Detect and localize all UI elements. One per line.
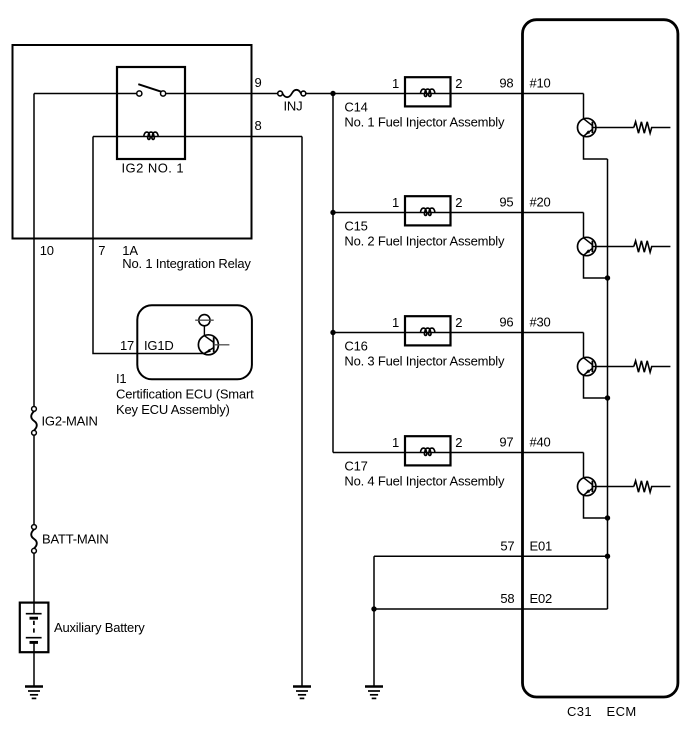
wire E01 <box>374 555 608 557</box>
ground <box>25 687 43 699</box>
wire base to resistor row 1 <box>592 127 633 129</box>
wire pin 10 riser top segment <box>33 94 35 407</box>
svg-text:E02: E02 <box>530 591 553 606</box>
injector C14 coil <box>421 89 435 96</box>
transistor row 2 in ECM <box>578 237 596 255</box>
connector IG2-MAIN <box>31 407 37 436</box>
wire E01/E02 drop to ground <box>373 556 375 686</box>
wire injector feed bus <box>306 94 333 453</box>
node emitter bus join row 2 <box>605 275 610 280</box>
node junction at INJ output <box>330 91 335 96</box>
wire emitter to common bus row 1 <box>584 136 608 159</box>
wire common emitter bus <box>607 159 609 609</box>
wire relay contact to INJ fuse (pin 9) <box>166 93 278 95</box>
svg-text:1: 1 <box>392 76 399 91</box>
node emitter bus join row 4 <box>605 515 610 520</box>
wire to battery <box>33 554 35 614</box>
svg-text:#20: #20 <box>530 195 551 210</box>
svg-text:10: 10 <box>40 243 54 258</box>
svg-text:No. 2 Fuel Injector Assembly: No. 2 Fuel Injector Assembly <box>344 234 505 249</box>
wire switch line from pin 10 riser to relay contact <box>34 93 137 95</box>
relay coil <box>144 132 158 139</box>
svg-text:C14: C14 <box>344 100 367 115</box>
relay switch contact <box>137 84 166 96</box>
node E02 left junction <box>371 606 376 611</box>
wire base to resistor row 3 <box>592 366 633 368</box>
resistor row 3 <box>634 361 671 372</box>
battery cell plates <box>26 614 42 643</box>
relay IG2 NO. 1 box <box>117 67 185 159</box>
resistor row 4 <box>634 481 671 492</box>
svg-text:Key ECU Assembly): Key ECU Assembly) <box>116 402 230 417</box>
wire emitter to common bus row 3 <box>584 375 608 398</box>
svg-text:BATT-MAIN: BATT-MAIN <box>42 532 109 547</box>
Auxiliary Battery box <box>20 603 49 653</box>
svg-text:C16: C16 <box>344 339 367 354</box>
wire injector row 3 <box>333 332 584 334</box>
node emitter bus join row 3 <box>605 395 610 400</box>
svg-text:1: 1 <box>392 315 399 330</box>
transistor row 3 in ECM <box>578 357 596 375</box>
svg-text:#10: #10 <box>530 76 551 91</box>
Certification ECU I1 box <box>137 305 252 379</box>
svg-text:58: 58 <box>500 591 514 606</box>
ground <box>293 687 311 699</box>
svg-text:Certification ECU (Smart: Certification ECU (Smart <box>116 386 254 401</box>
svg-text:95: 95 <box>499 195 513 210</box>
svg-text:#30: #30 <box>530 315 551 330</box>
injector C15 box <box>405 196 451 225</box>
svg-text:96: 96 <box>499 315 513 330</box>
svg-text:17: 17 <box>120 338 134 353</box>
svg-text:No. 3 Fuel Injector Assembly: No. 3 Fuel Injector Assembly <box>344 354 505 369</box>
wire emitter to common bus row 4 <box>584 495 608 518</box>
wire collector drop row 2 <box>583 213 585 238</box>
svg-text:Auxiliary Battery: Auxiliary Battery <box>54 620 145 635</box>
svg-text:C15: C15 <box>344 219 367 234</box>
wire base to resistor row 2 <box>592 246 633 248</box>
resistor row 2 <box>634 241 671 252</box>
ground <box>365 687 383 699</box>
svg-text:INJ: INJ <box>284 98 303 113</box>
svg-text:98: 98 <box>499 76 513 91</box>
wire E02 <box>374 608 608 610</box>
svg-text:No. 1 Integration Relay: No. 1 Integration Relay <box>122 256 251 271</box>
wire injector row 2 <box>333 212 584 214</box>
injector C17 box <box>405 436 451 465</box>
svg-text:IG2-MAIN: IG2-MAIN <box>42 413 98 428</box>
svg-text:2: 2 <box>455 315 462 330</box>
wire collector drop row 1 <box>583 94 585 119</box>
wire emitter to common bus row 2 <box>584 255 608 278</box>
node E01 junction <box>605 554 610 559</box>
wire pin 7 drop to IG1D <box>93 137 204 354</box>
svg-text:ECM: ECM <box>607 704 637 719</box>
svg-text:1: 1 <box>392 435 399 450</box>
transistor row 1 in ECM <box>578 118 596 136</box>
wire terminal to transistor <box>203 326 205 336</box>
svg-text:#40: #40 <box>530 435 551 450</box>
connector BATT-MAIN <box>31 525 37 554</box>
svg-text:IG1D: IG1D <box>144 338 174 353</box>
svg-text:2: 2 <box>455 76 462 91</box>
transistor in Certification ECU <box>198 335 229 355</box>
wire collector drop row 4 <box>583 453 585 478</box>
node at C15 branch <box>330 210 335 215</box>
svg-text:C17: C17 <box>344 459 367 474</box>
wire between connectors <box>33 436 35 524</box>
svg-text:57: 57 <box>500 538 514 553</box>
svg-text:No. 1 Fuel Injector Assembly: No. 1 Fuel Injector Assembly <box>344 115 505 130</box>
svg-text:8: 8 <box>255 118 262 133</box>
wire relay coil line pin 7 to pin 8 riser <box>93 136 302 138</box>
No. 1 Integration Relay outer box <box>13 45 252 239</box>
transistor row 4 in ECM <box>578 477 596 495</box>
svg-text:7: 7 <box>98 243 105 258</box>
injector C15 coil <box>421 208 435 215</box>
wire injector row 1 <box>333 93 584 95</box>
svg-text:E01: E01 <box>530 538 553 553</box>
wire base to resistor row 4 <box>592 486 633 488</box>
svg-text:C31: C31 <box>567 704 592 719</box>
injector C17 coil <box>421 448 435 455</box>
wire battery to ground <box>33 642 35 686</box>
wire injector row 4 <box>333 452 584 454</box>
wire collector drop row 3 <box>583 333 585 358</box>
svg-text:2: 2 <box>455 195 462 210</box>
svg-text:I1: I1 <box>116 371 126 386</box>
terminal circle above transistor <box>195 315 214 326</box>
svg-text:2: 2 <box>455 435 462 450</box>
wire pin 8 drop to ground <box>301 137 303 687</box>
ECM connector box C31 <box>523 20 678 697</box>
svg-text:9: 9 <box>255 75 262 90</box>
svg-text:97: 97 <box>499 435 513 450</box>
resistor row 1 <box>634 122 671 133</box>
injector C16 box <box>405 316 451 345</box>
svg-text:IG2 NO. 1: IG2 NO. 1 <box>122 160 185 175</box>
injector C14 box <box>405 77 451 106</box>
node at C16 branch <box>330 330 335 335</box>
injector C16 coil <box>421 328 435 335</box>
svg-text:No. 4 Fuel Injector Assembly: No. 4 Fuel Injector Assembly <box>344 474 505 489</box>
svg-text:1: 1 <box>392 195 399 210</box>
fuse INJ <box>278 90 306 97</box>
